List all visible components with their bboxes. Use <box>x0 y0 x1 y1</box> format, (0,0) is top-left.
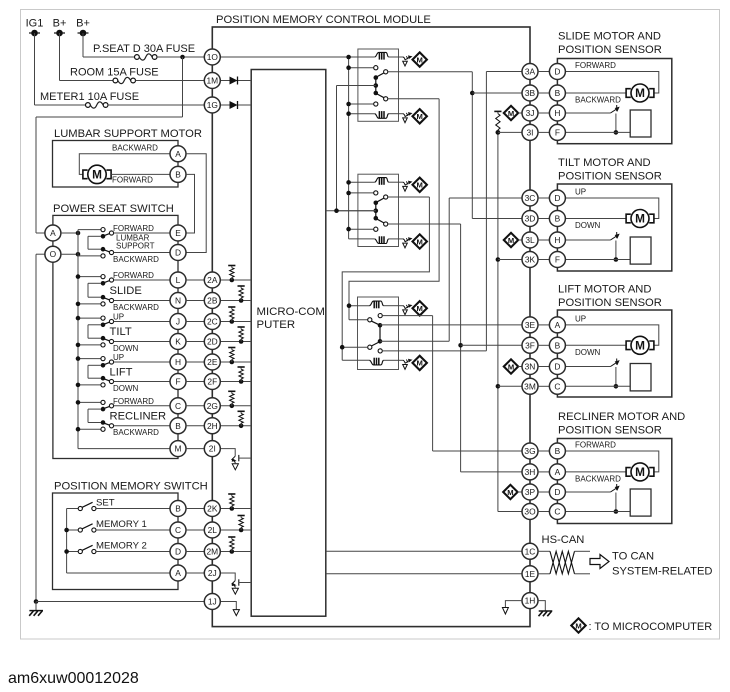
terminal C power seat switch <box>170 398 186 414</box>
wire fixed1 feed <box>78 276 101 278</box>
connector 1O <box>204 49 220 65</box>
contact out1 <box>109 319 113 323</box>
svg-text:D: D <box>554 362 560 372</box>
wire stub B <box>538 218 550 220</box>
relay RY2 coil2 lead <box>349 238 375 240</box>
relay RY1 coil1 driver <box>403 57 405 60</box>
relay RY1 coil1 lead <box>349 56 375 58</box>
relay RY1 fixed2 <box>374 102 378 106</box>
svg-text:3J: 3J <box>526 108 535 118</box>
wire B+ down to switch A <box>35 117 37 233</box>
svg-text:M: M <box>417 237 423 246</box>
wire micro to RY2 common <box>326 210 376 212</box>
wire stub B <box>538 92 550 94</box>
svg-text:1M: 1M <box>206 76 218 86</box>
svg-text:TILT: TILT <box>110 326 132 338</box>
power seat switch box <box>53 215 178 458</box>
svg-text:POSITION SENSOR: POSITION SENSOR <box>558 44 662 56</box>
wire A to motor <box>565 325 659 345</box>
contact out2 <box>109 339 113 343</box>
svg-text:B+: B+ <box>53 18 67 30</box>
wire connector to microcomputer <box>220 300 251 302</box>
terminal C recliner <box>549 504 565 520</box>
svg-text:2A: 2A <box>207 275 218 285</box>
svg-text:POSITION SENSOR: POSITION SENSOR <box>558 425 662 437</box>
wire 1H right <box>538 601 546 611</box>
node supply RY2 fixed1 <box>346 191 351 196</box>
wire micro to 1E <box>326 573 523 575</box>
svg-text:DOWN: DOWN <box>113 384 139 393</box>
svg-text:M: M <box>635 212 645 226</box>
wire pivot1 to bus <box>88 408 101 410</box>
svg-text:2C: 2C <box>207 317 218 327</box>
svg-text:2H: 2H <box>207 421 218 431</box>
pivot 1 <box>101 323 106 328</box>
relay RY2 coil2 driver <box>403 239 405 242</box>
svg-text:MICRO-COM: MICRO-COM <box>257 306 325 318</box>
connector 3L <box>522 232 538 248</box>
relay RY1 arm1 <box>377 73 384 77</box>
svg-text:MEMORY 2: MEMORY 2 <box>96 541 147 552</box>
pivot 2 <box>101 336 106 341</box>
pivot bus <box>87 325 89 338</box>
svg-text:3M: 3M <box>524 381 536 391</box>
relay RY3 coil2 <box>370 360 384 365</box>
svg-text:F: F <box>555 127 560 137</box>
terminal O switch <box>45 246 61 262</box>
pull-up resistor <box>230 506 235 511</box>
wire memory A <box>67 572 171 574</box>
bus RY1 pivot1 down <box>471 72 473 219</box>
connector 2F <box>204 374 220 390</box>
svg-text:BACKWARD: BACKWARD <box>575 96 621 105</box>
bus RY2 pivot2 down <box>460 224 462 472</box>
wire micro to 1C <box>326 550 523 552</box>
svg-text:B: B <box>555 446 561 456</box>
svg-text:M: M <box>417 359 423 368</box>
svg-text:RECLINER: RECLINER <box>110 410 167 422</box>
svg-text:IG1: IG1 <box>26 18 44 30</box>
svg-text:M: M <box>635 465 645 479</box>
pull-up resistor <box>230 278 235 283</box>
svg-text:2K: 2K <box>207 504 218 514</box>
relay RY2 fixed2 wire <box>349 228 374 230</box>
wire memory to module <box>186 529 205 531</box>
relay RY1 coil2 driver wire <box>399 113 404 115</box>
wire connector to microcomputer <box>220 361 251 363</box>
terminal D lift <box>549 359 565 375</box>
svg-text:D: D <box>175 248 181 258</box>
svg-text:ROOM 15A FUSE: ROOM 15A FUSE <box>70 67 159 79</box>
relay RY1 arm2 <box>377 94 384 98</box>
motor box TILT MOTOR AND <box>557 184 671 271</box>
relay RY1 coil2 <box>375 114 389 119</box>
connector 3I <box>522 124 538 140</box>
wire out1 <box>114 321 171 323</box>
terminal A switch <box>45 225 61 241</box>
terminal A lift <box>549 317 565 333</box>
svg-text:M: M <box>635 86 645 100</box>
svg-text:MEMORY 1: MEMORY 1 <box>96 519 147 530</box>
switch arm lumbar1 <box>102 234 109 237</box>
diamond 3J <box>504 106 518 120</box>
svg-text:FORWARD: FORWARD <box>113 397 154 406</box>
connector 3J <box>522 105 538 121</box>
contact lumbar fixed1 <box>101 228 105 232</box>
pivot lumbar1 <box>101 234 106 239</box>
relay box RY1 <box>358 49 399 121</box>
wire fixed1 lumbar feed <box>78 229 101 231</box>
wire to 3A <box>486 71 522 73</box>
svg-text:2D: 2D <box>207 337 218 347</box>
switch arm 2 <box>102 378 109 381</box>
contact out2 <box>109 379 113 383</box>
wire to 3G <box>433 450 523 452</box>
wire to 3F <box>461 344 523 346</box>
terminal D memory switch <box>170 544 186 560</box>
wire B+2 down <box>82 33 84 57</box>
pull-up resistor <box>239 339 244 344</box>
wire stub H <box>538 239 550 241</box>
terminal D slide <box>549 64 565 80</box>
switch MEMORY 1 pivot <box>78 528 82 532</box>
connector 2G <box>204 398 220 414</box>
relay RY3 common2 wire <box>380 340 449 342</box>
node bus fixed1 <box>76 274 81 279</box>
contact fixed2 <box>101 383 105 387</box>
svg-text:E: E <box>175 228 181 238</box>
contact out1 <box>109 360 113 364</box>
pivot bus <box>87 409 89 422</box>
connector 2D <box>204 334 220 350</box>
wire IG1 down <box>34 33 36 105</box>
svg-text:SET: SET <box>96 498 115 509</box>
position sensor lift <box>565 366 611 368</box>
node memory bus C <box>64 528 69 533</box>
wire connector to microcomputer <box>220 341 251 343</box>
svg-text:1E: 1E <box>525 569 536 579</box>
wire 1H left <box>505 601 522 608</box>
terminal H slide <box>549 105 565 121</box>
svg-text:A: A <box>555 320 561 330</box>
wire RY1 pivot1 right <box>388 71 472 73</box>
wire stub B <box>538 344 550 346</box>
svg-text:A: A <box>175 149 181 159</box>
bus RY3 fixed2 up <box>485 72 487 351</box>
node RY3 coil1 feed <box>347 303 352 308</box>
switch SET arm <box>82 502 92 507</box>
svg-text:1C: 1C <box>525 546 536 556</box>
node supply RY2 coil1 <box>346 180 351 185</box>
diamond 3P <box>503 485 517 499</box>
switch arm 2 <box>102 423 109 426</box>
svg-text:F: F <box>555 255 560 265</box>
svg-text:3O: 3O <box>524 507 536 517</box>
svg-text:N: N <box>175 296 181 306</box>
wire pivot1 to bus <box>88 282 101 284</box>
pivot 2 <box>101 420 106 425</box>
connector 3C <box>522 190 538 206</box>
wire MEMORY 2 out <box>96 551 170 553</box>
svg-text:FORWARD: FORWARD <box>113 271 154 280</box>
terminal B tilt <box>549 211 565 227</box>
terminal D recliner <box>549 484 565 500</box>
motor box LIFT MOTOR AND <box>557 310 671 397</box>
wire to 3I <box>498 131 523 133</box>
wire fixed2 lumbar feed <box>78 255 101 257</box>
contact fixed2 <box>101 343 105 347</box>
svg-text:FORWARD: FORWARD <box>113 224 154 233</box>
wire stub D <box>538 71 550 73</box>
fuse ROOM 15A <box>113 78 118 83</box>
relay RY2 pivot2 <box>384 222 388 226</box>
wire out1 <box>114 361 171 363</box>
wire O left <box>36 253 45 255</box>
svg-text:H: H <box>554 108 560 118</box>
motor lumbar <box>88 165 106 183</box>
svg-text:M: M <box>175 444 182 454</box>
relay RY1 fixed2 wire <box>349 103 374 105</box>
bus RY3 fixed1 down <box>432 316 434 451</box>
wire out2 <box>114 300 171 302</box>
relay RY1 fixed1 wire <box>349 67 374 69</box>
svg-text:P.SEAT D 30A FUSE: P.SEAT D 30A FUSE <box>93 43 195 55</box>
connector 1G <box>204 97 220 113</box>
pivot bus <box>87 365 89 378</box>
wire switch to module <box>186 300 205 302</box>
terminal J power seat switch <box>170 314 186 330</box>
wire to 3M <box>498 385 523 387</box>
svg-text:B: B <box>175 169 181 179</box>
wire B to motor <box>565 92 627 94</box>
contact fixed2 <box>101 427 105 431</box>
connector 2J <box>204 565 220 581</box>
pull-up resistor <box>239 528 244 533</box>
node bus fixed2 <box>76 343 81 348</box>
wire branch left <box>36 116 183 118</box>
switch arm 1 <box>102 281 109 284</box>
wire connector to microcomputer <box>220 508 251 510</box>
wire twist out bottom <box>575 573 591 575</box>
terminal F tilt <box>549 252 565 268</box>
svg-text:B: B <box>175 421 181 431</box>
relay RY3 coil1 <box>370 301 384 306</box>
connector 3O <box>522 504 538 520</box>
svg-text:POSITION MEMORY SWITCH: POSITION MEMORY SWITCH <box>54 481 208 493</box>
contact out2 <box>109 298 113 302</box>
node supply RY1 coil2 <box>346 111 351 116</box>
svg-text:BACKWARD: BACKWARD <box>575 475 621 484</box>
node 3M <box>496 384 501 389</box>
connector 3E <box>522 317 538 333</box>
motor tilt <box>631 210 649 228</box>
wire pivot2 from bus <box>88 337 101 339</box>
wire switch to module <box>186 361 205 363</box>
node 3K <box>496 257 501 262</box>
connector 3K <box>522 252 538 268</box>
svg-text:M: M <box>508 362 514 371</box>
svg-text:SLIDE MOTOR AND: SLIDE MOTOR AND <box>558 31 661 43</box>
bus RY2 pivot1 down <box>342 197 429 360</box>
terminal A lumbar <box>170 146 186 162</box>
wire stub B <box>538 450 550 452</box>
svg-text:FORWARD: FORWARD <box>575 441 616 450</box>
contact lumbar fixed2 <box>101 254 105 258</box>
svg-text:UP: UP <box>113 313 124 322</box>
diode 1G <box>230 101 238 109</box>
svg-text:H: H <box>175 357 181 367</box>
relay RY2 fixed1 wire <box>349 192 374 194</box>
wire SET left <box>67 508 79 510</box>
wire 1J right <box>220 602 236 610</box>
legend diamond <box>571 618 585 632</box>
wire fixed1 feed <box>78 358 101 360</box>
svg-text:UP: UP <box>575 188 586 197</box>
terminal M power seat switch <box>170 441 186 457</box>
wire to 3D <box>472 218 522 220</box>
node bus fixed1 <box>76 316 81 321</box>
wire B+2 to fuse <box>83 56 137 58</box>
wire pivot2 from bus <box>88 296 101 298</box>
wire switch to module <box>186 321 205 323</box>
node 3I <box>496 130 501 135</box>
switch arm 1 <box>102 406 109 409</box>
wire connector to microcomputer <box>220 279 251 281</box>
relay RY3 coil1 driver wire <box>399 305 404 307</box>
wire fixed1 feed <box>78 401 101 403</box>
motor box SLIDE MOTOR AND <box>557 59 671 144</box>
wire P.SEAT fuse to 1O <box>157 56 205 58</box>
wire RY2 pivot1 right <box>388 196 430 198</box>
svg-text:RECLINER MOTOR AND: RECLINER MOTOR AND <box>558 411 685 423</box>
connector 2B <box>204 293 220 309</box>
wire stub D <box>538 366 550 368</box>
wire switch to module <box>186 405 205 407</box>
wire pivot1 to bus <box>88 324 101 326</box>
terminal B+ <box>54 32 65 34</box>
relay RY3 pivot1 <box>368 318 372 322</box>
pivot 1 <box>101 281 106 286</box>
motor slide <box>631 84 649 102</box>
svg-text:3H: 3H <box>525 467 536 477</box>
svg-text:B: B <box>175 504 181 514</box>
svg-text:3D: 3D <box>525 214 536 224</box>
relay RY3 common1 wire to 3E <box>380 324 522 326</box>
wire to 3C <box>449 197 522 199</box>
svg-text:3A: 3A <box>525 67 536 77</box>
wire switch to module <box>186 341 205 343</box>
terminal B power seat switch <box>170 418 186 434</box>
svg-text:SYSTEM-RELATED: SYSTEM-RELATED <box>612 566 713 578</box>
position sensor slide <box>565 112 611 114</box>
left bus <box>77 256 79 449</box>
relay RY1 coil1 <box>375 52 389 57</box>
node P.SEAT branch <box>180 55 185 60</box>
node bus fixed2 <box>76 427 81 432</box>
svg-text:UP: UP <box>575 315 586 324</box>
terminal E power seat switch <box>170 225 186 241</box>
wire B+1 to fuse <box>60 80 114 82</box>
svg-text:POSITION SENSOR: POSITION SENSOR <box>558 171 662 183</box>
wire pivot2 from bus <box>88 422 101 424</box>
relay common bus <box>336 86 338 211</box>
connector 1C <box>522 543 538 559</box>
terminal A recliner <box>549 464 565 480</box>
svg-text:B: B <box>555 214 561 224</box>
wire branch down <box>182 57 184 117</box>
fuse P.SEAT D 30A <box>135 55 140 60</box>
connector 2M <box>204 544 220 560</box>
relay RY1 coil2 driver <box>403 114 405 117</box>
svg-text:: TO MICROCOMPUTER: : TO MICROCOMPUTER <box>589 621 713 633</box>
wire stub F <box>538 259 550 261</box>
svg-text:2L: 2L <box>208 525 218 535</box>
terminal B lumbar <box>170 166 186 182</box>
wire B to motor <box>565 218 627 220</box>
relay RY3 pivot2 <box>368 345 372 349</box>
wire pivot1 to bus <box>88 364 101 366</box>
node memory bus D <box>64 549 69 554</box>
wire connector to microcomputer <box>220 551 251 553</box>
relay RY3 fixed1 <box>378 314 382 318</box>
wire lumbar pivot bus <box>88 235 101 237</box>
ground arrow 1J <box>233 610 239 616</box>
connector 1E <box>522 566 538 582</box>
relay RY3 fixed2 <box>378 349 382 353</box>
svg-text:POSITION MEMORY CONTROL MODULE: POSITION MEMORY CONTROL MODULE <box>216 14 431 26</box>
connector 3B <box>522 85 538 101</box>
wire D to motor <box>565 198 659 219</box>
relay RY2 coil2 driver wire <box>399 238 404 240</box>
svg-text:LIFT MOTOR AND: LIFT MOTOR AND <box>558 284 651 296</box>
connector 1J <box>204 594 220 610</box>
connector 3H <box>522 464 538 480</box>
terminal K power seat switch <box>170 334 186 350</box>
bus RY1 pivot2 down <box>349 99 439 320</box>
switch arm 2 <box>102 297 109 300</box>
relay RY3 arm1 <box>372 321 379 325</box>
wire memory to module <box>186 508 205 510</box>
wire out2 <box>114 341 171 343</box>
svg-text:3N: 3N <box>525 362 536 372</box>
terminal D power seat switch <box>170 245 186 261</box>
relay RY3 arm2 <box>372 342 379 346</box>
svg-text:2F: 2F <box>207 377 217 387</box>
terminal D tilt <box>549 190 565 206</box>
terminal B+ <box>78 32 89 34</box>
wire D to motor <box>565 72 659 94</box>
svg-text:2I: 2I <box>209 444 216 454</box>
pivot lumbar2 <box>101 247 106 252</box>
relay RY3 common dots <box>378 323 383 328</box>
wire twist out top <box>575 550 591 552</box>
wire B to motor <box>565 344 627 346</box>
relay RY1 common wire <box>337 85 376 87</box>
svg-text:M: M <box>92 168 102 182</box>
svg-text:1G: 1G <box>207 100 218 110</box>
terminal IG1 <box>29 32 40 34</box>
relay RY3 pivot2 wire <box>342 346 368 348</box>
wire fixed2 feed <box>78 384 101 386</box>
node bus fixed2 <box>76 302 81 307</box>
motor recliner <box>631 463 649 481</box>
svg-text:C: C <box>554 381 560 391</box>
svg-text:O: O <box>50 249 57 259</box>
pull-up resistor <box>230 404 235 409</box>
relay RY2 coil1 lead <box>349 181 375 183</box>
motor lift <box>631 336 649 354</box>
wire switch to module <box>186 279 205 281</box>
